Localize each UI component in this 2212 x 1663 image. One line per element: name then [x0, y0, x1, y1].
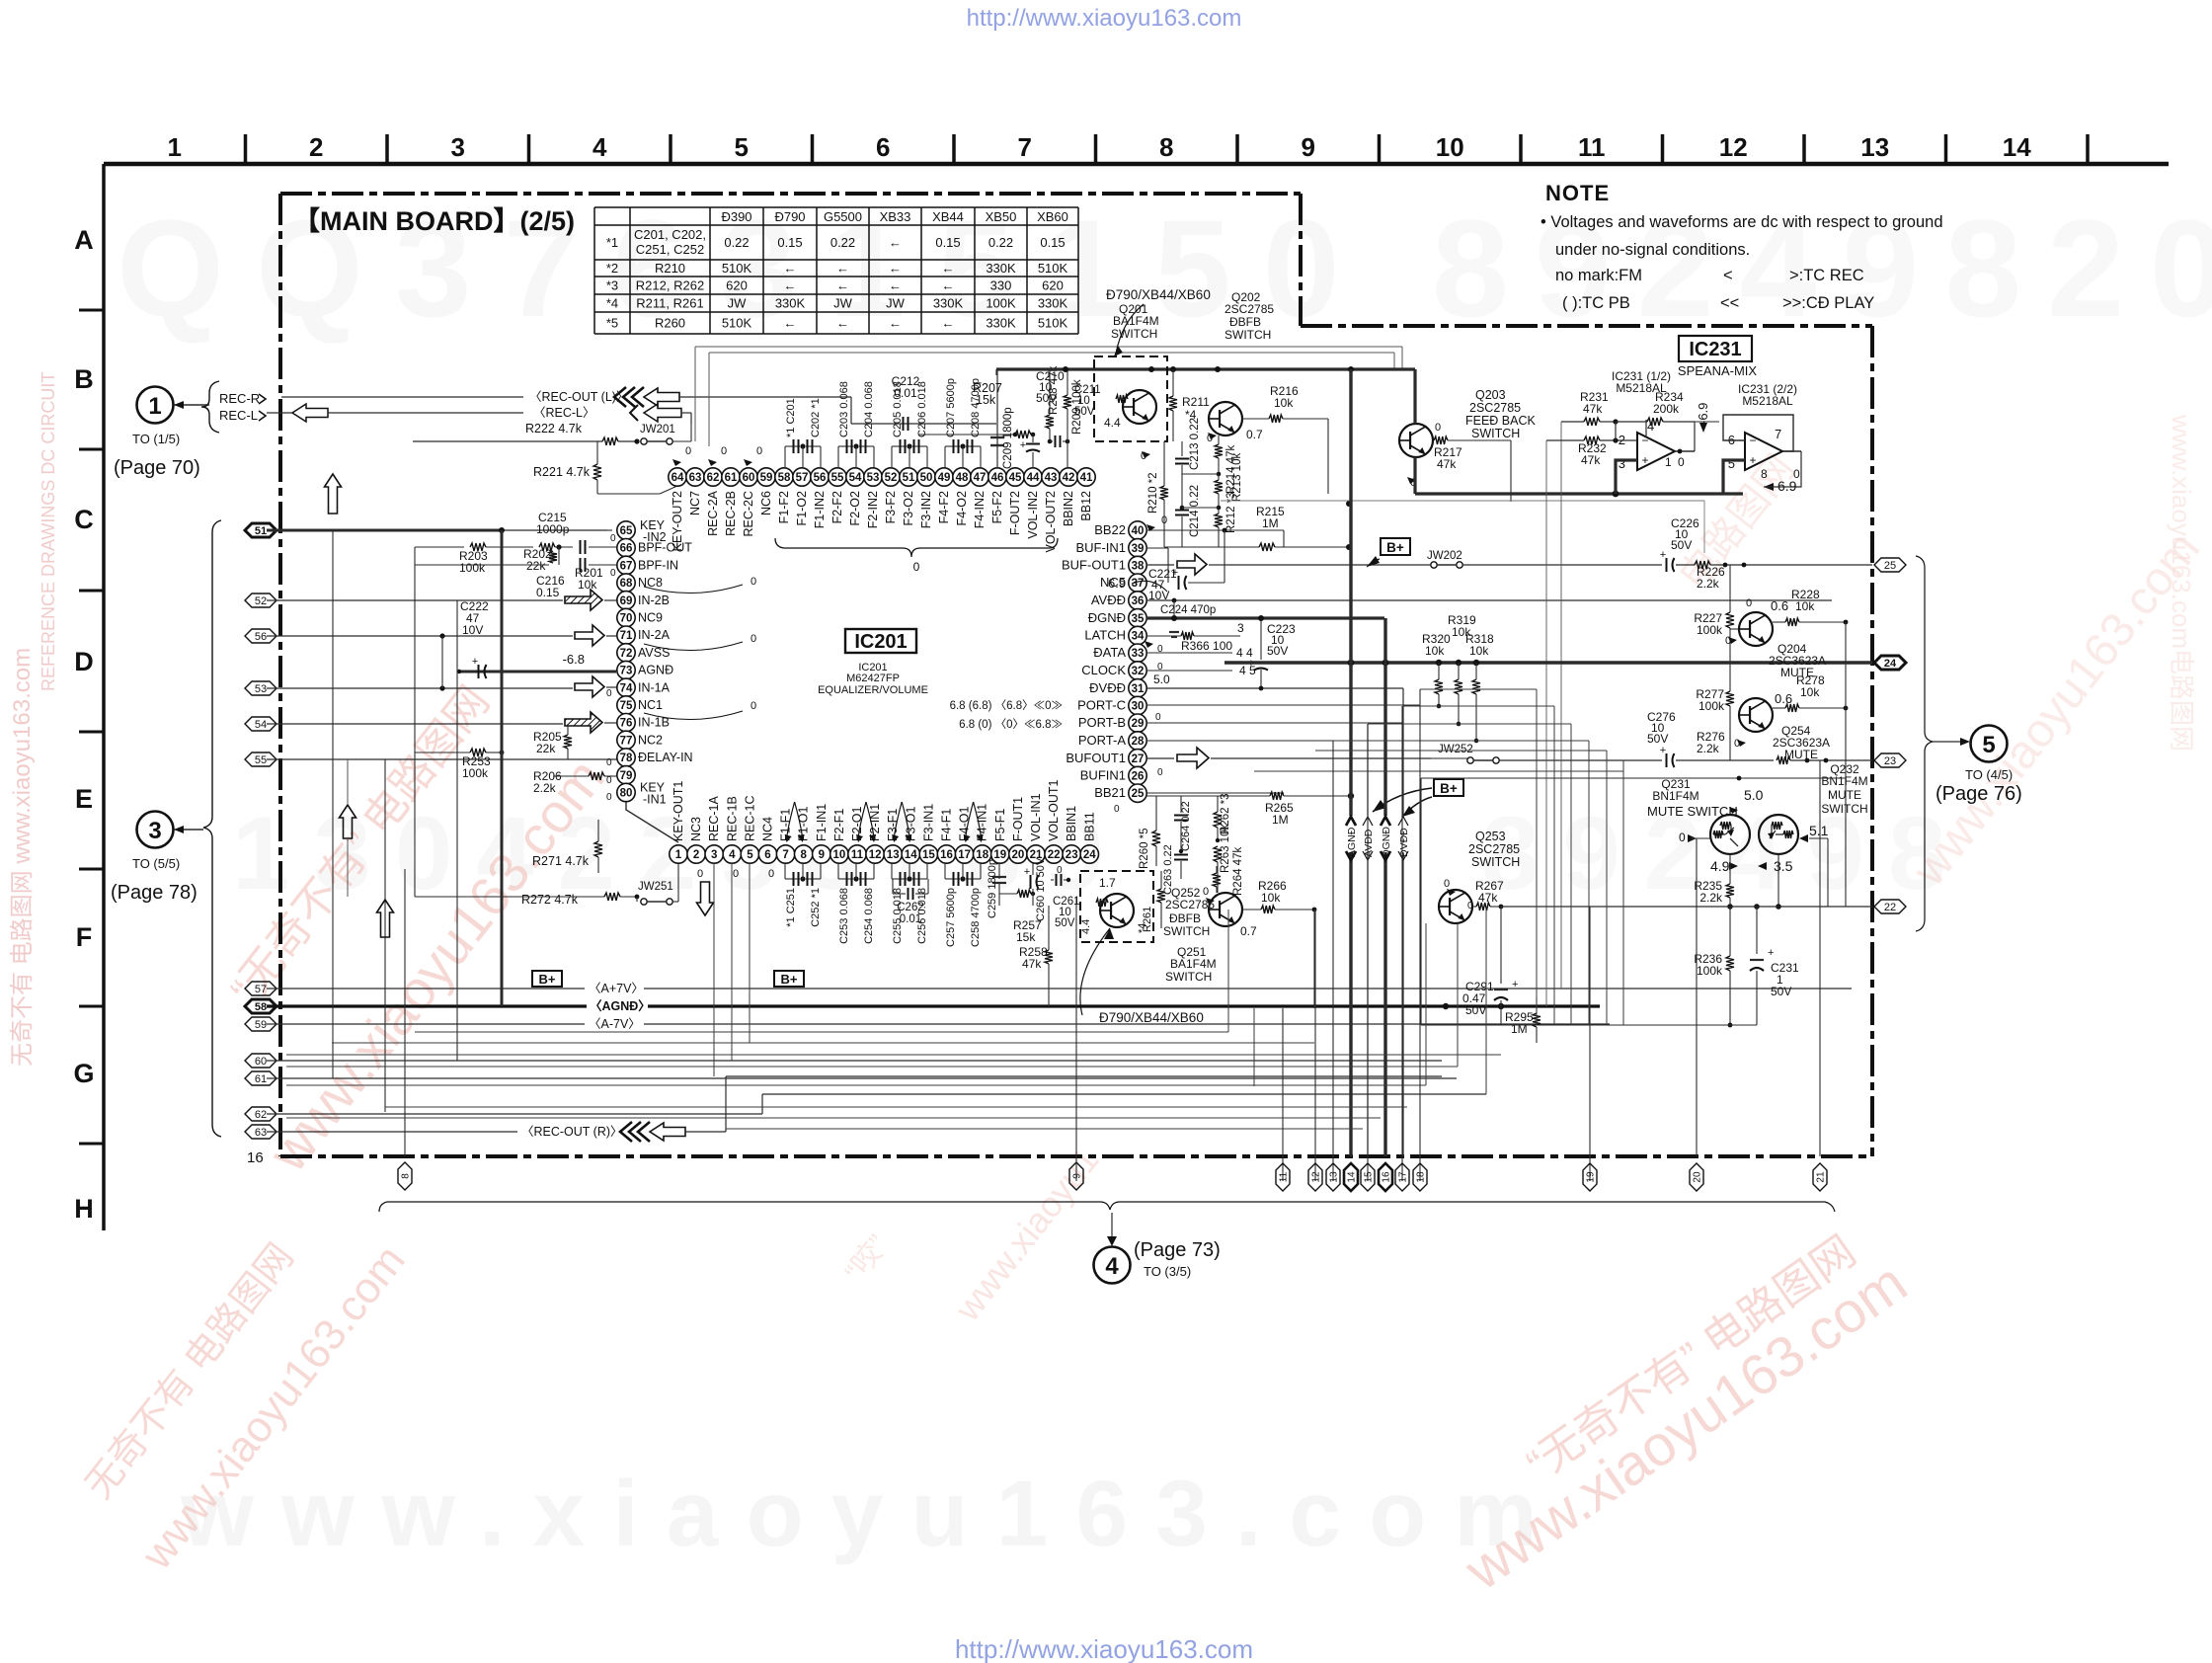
svg-text:100k: 100k — [1697, 623, 1723, 637]
svg-text:0: 0 — [750, 700, 756, 712]
svg-text:0.6: 0.6 — [1775, 691, 1792, 706]
svg-text:64: 64 — [671, 472, 684, 484]
svg-text:F4-F1: F4-F1 — [940, 809, 954, 841]
bottom connectors — [398, 1162, 412, 1190]
svg-text:• Voltages and waveforms are d: • Voltages and waveforms are dc with res… — [1540, 213, 1943, 231]
table variants — [594, 206, 1078, 208]
svg-text:R212 *3: R212 *3 — [1225, 492, 1237, 533]
vertical AVDD — [1367, 724, 1369, 816]
pin 35 &#208;GN&#208; — [1129, 609, 1146, 627]
svg-text:14: 14 — [1347, 1171, 1358, 1183]
svg-text:+: + — [1768, 947, 1774, 959]
svg-text:REC-2B: REC-2B — [724, 491, 738, 536]
pin 49 F4-F2 — [935, 468, 953, 486]
svg-text:AVÐÐ: AVÐÐ — [1363, 829, 1375, 857]
svg-text:35: 35 — [1132, 613, 1145, 625]
svg-text:53: 53 — [255, 683, 267, 695]
svg-text:*1 C251: *1 C251 — [785, 888, 797, 927]
svg-text:61: 61 — [255, 1073, 267, 1085]
svg-text:34: 34 — [1132, 631, 1145, 643]
svg-text:VOL-OUT1: VOL-OUT1 — [1047, 779, 1061, 841]
svg-text:3: 3 — [711, 849, 717, 861]
svg-text:←: ← — [784, 278, 797, 293]
bus horizontals lower — [415, 1031, 1228, 1033]
svg-text:BUF-IN1: BUF-IN1 — [1075, 540, 1126, 555]
pin 52 F3-F2 — [882, 468, 900, 486]
svg-text:〈A-7V〉: 〈A-7V〉 — [589, 1017, 641, 1031]
svg-text:BUFOUT1: BUFOUT1 — [1066, 751, 1126, 765]
svg-text:B+: B+ — [539, 972, 556, 987]
svg-text:VOL-IN2: VOL-IN2 — [1026, 491, 1040, 539]
svg-text:13: 13 — [887, 849, 900, 861]
svg-text:0: 0 — [685, 445, 691, 457]
svg-text:57: 57 — [255, 984, 267, 995]
svg-text:37: 37 — [1132, 578, 1145, 590]
svg-text:0.15: 0.15 — [536, 586, 560, 599]
svg-text:48: 48 — [956, 472, 969, 484]
svg-text:0: 0 — [606, 775, 612, 786]
pin 78 &#208;ELAY-IN — [617, 749, 635, 766]
pin 70 NC9 — [617, 608, 635, 626]
net arrow DVDD — [1398, 817, 1408, 826]
svg-text:C206 0.018: C206 0.018 — [916, 381, 928, 437]
connector 52 — [245, 594, 276, 607]
svg-text:IN-2A: IN-2A — [638, 628, 671, 642]
svg-text:XB44: XB44 — [932, 209, 964, 224]
svg-text:F4-F2: F4-F2 — [937, 491, 951, 523]
svg-text:REC-L: REC-L — [219, 408, 258, 423]
svg-text:0.6: 0.6 — [1771, 598, 1788, 613]
svg-text:29: 29 — [1132, 718, 1145, 730]
svg-text:15: 15 — [922, 849, 935, 861]
wire 61 — [267, 1077, 1457, 1079]
svg-text:9: 9 — [819, 849, 825, 861]
IC201 label box — [845, 629, 916, 653]
svg-text:73: 73 — [620, 666, 633, 677]
pin 7 F1-F1 — [776, 845, 794, 863]
svg-text:67: 67 — [620, 560, 633, 572]
svg-text:>>:CÐ PLAY: >>:CÐ PLAY — [1782, 294, 1874, 312]
pin 5 REC-1C — [741, 845, 758, 863]
wire key-in1 diagonal — [626, 802, 678, 842]
svg-text:XB60: XB60 — [1037, 209, 1068, 224]
svg-text:0: 0 — [1679, 831, 1686, 844]
pin 48 F4-O2 — [953, 468, 971, 486]
svg-text:R211, R261: R211, R261 — [636, 296, 703, 311]
svg-text:←: ← — [836, 261, 849, 276]
svg-text:33: 33 — [1132, 648, 1145, 660]
svg-text:58: 58 — [255, 1001, 267, 1013]
svg-text:〈AGNÐ〉: 〈AGNÐ〉 — [590, 998, 651, 1013]
pin 77 NC2 — [617, 731, 635, 749]
svg-text:BB11: BB11 — [1082, 812, 1096, 841]
svg-text:R209 100k: R209 100k — [1071, 379, 1083, 435]
svg-text:3: 3 — [1619, 456, 1625, 471]
svg-text:10k: 10k — [1274, 396, 1294, 410]
svg-text:0: 0 — [1678, 455, 1685, 469]
svg-text:20: 20 — [1693, 1171, 1703, 1183]
svg-text:40: 40 — [1132, 525, 1145, 537]
svg-text:75: 75 — [620, 700, 633, 712]
wire port-a pin28 — [1146, 740, 1385, 742]
svg-text:R366 100: R366 100 — [1181, 639, 1232, 653]
svg-text:NC6: NC6 — [759, 491, 773, 515]
svg-text:9: 9 — [1072, 1173, 1083, 1179]
capacitor C205 — [891, 446, 893, 468]
svg-text:←: ← — [942, 316, 955, 331]
svg-text:JW: JW — [728, 296, 748, 311]
wire in-1a — [267, 687, 573, 689]
svg-text:0: 0 — [1435, 422, 1441, 434]
svg-text:4.4: 4.4 — [1104, 416, 1121, 430]
svg-text:F2-O2: F2-O2 — [848, 491, 862, 525]
svg-text:F4-IN2: F4-IN2 — [973, 491, 987, 528]
wire port-c pin30 — [1146, 704, 1420, 706]
svg-text:11: 11 — [851, 849, 864, 861]
svg-text:R261: R261 — [1142, 907, 1153, 932]
pin 39 BUF-IN1 — [1129, 539, 1146, 557]
svg-text:8: 8 — [1159, 132, 1173, 162]
svg-text:ÐATA: ÐATA — [1093, 645, 1126, 660]
svg-text:20: 20 — [1012, 849, 1025, 861]
svg-text:55: 55 — [255, 754, 267, 766]
svg-text:6.9: 6.9 — [1777, 478, 1797, 494]
svg-text:VOL-OUT2: VOL-OUT2 — [1044, 491, 1058, 553]
svg-text:B+: B+ — [781, 972, 798, 987]
svg-text:41: 41 — [1080, 472, 1093, 484]
bottom brace — [379, 1202, 387, 1212]
svg-text:EQUALIZER/VOLUME: EQUALIZER/VOLUME — [818, 684, 928, 696]
svg-text:18: 18 — [1416, 1171, 1427, 1183]
svg-text:2SC2785: 2SC2785 — [1469, 401, 1521, 415]
svg-text:56: 56 — [255, 631, 267, 643]
pin 42 BBIN2 — [1060, 468, 1077, 486]
svg-text:NC2: NC2 — [638, 733, 663, 747]
pin 67 BPF-IN — [617, 556, 635, 574]
svg-text:39: 39 — [1132, 543, 1145, 555]
svg-text:2: 2 — [693, 849, 699, 861]
svg-text:17: 17 — [1398, 1171, 1409, 1183]
svg-text:F5-F1: F5-F1 — [993, 809, 1007, 841]
svg-text:XB50: XB50 — [986, 209, 1017, 224]
connector 61 — [245, 1071, 276, 1085]
svg-text:1: 1 — [1665, 455, 1672, 469]
pin 71 IN-2A — [617, 626, 635, 644]
svg-text:+: + — [1749, 453, 1756, 467]
pin 60 REC-2C — [740, 468, 757, 486]
svg-text:2SC2785: 2SC2785 — [1224, 302, 1274, 316]
svg-text:http://www.xiaoyu163.com: http://www.xiaoyu163.com — [967, 5, 1242, 32]
svg-text:32: 32 — [1132, 666, 1145, 677]
svg-text:80: 80 — [620, 788, 633, 800]
capacitor C212 — [903, 417, 905, 431]
node 5 TO (4/5) — [1916, 556, 1933, 931]
pin 26 BUFIN1 — [1129, 766, 1146, 784]
svg-text:BPF-OUT: BPF-OUT — [638, 541, 692, 555]
bold input pin3 — [1616, 460, 1637, 494]
capacitor C209 — [996, 370, 998, 468]
pin 53 F2-IN2 — [864, 468, 882, 486]
svg-text:XB33: XB33 — [880, 209, 911, 224]
pin 14 F3-O1 — [902, 845, 919, 863]
svg-text:AVSS: AVSS — [638, 646, 670, 660]
connector 57 — [245, 982, 276, 995]
svg-text:620: 620 — [726, 278, 748, 293]
svg-text:←: ← — [889, 316, 902, 331]
svg-text:1M: 1M — [1262, 516, 1279, 530]
svg-text:←: ← — [889, 235, 902, 250]
svg-text:510K: 510K — [722, 261, 752, 276]
wire agnd bus — [267, 1004, 587, 1007]
JW202 jumper — [1146, 564, 1174, 566]
svg-text:SWITCH: SWITCH — [1471, 427, 1520, 440]
svg-text:www.xiaoyu163.com电路图网: www.xiaoyu163.com电路图网 — [2167, 414, 2196, 752]
svg-text:Ð790/XB44/XB60: Ð790/XB44/XB60 — [1099, 1010, 1204, 1025]
wire 62 — [267, 1113, 762, 1115]
IC231 label box — [1679, 336, 1752, 361]
pin 76 IN-1B — [617, 714, 635, 732]
svg-text:REC-1A: REC-1A — [707, 795, 721, 841]
svg-text:C203 0.068: C203 0.068 — [838, 381, 850, 437]
svg-text:10: 10 — [833, 849, 846, 861]
svg-text:22: 22 — [1884, 902, 1896, 913]
pin 30 PORT-C — [1129, 696, 1146, 714]
svg-text:ÐBFB: ÐBFB — [1229, 315, 1261, 329]
svg-text:NC7: NC7 — [688, 491, 702, 515]
wire in-1b — [267, 723, 563, 725]
svg-text:0.7: 0.7 — [1240, 924, 1257, 938]
pin 58 F1-F2 — [775, 468, 793, 486]
pin 45 F-OUT2 — [1006, 468, 1024, 486]
svg-text:BN1F4M: BN1F4M — [1821, 774, 1867, 788]
svg-text:62: 62 — [255, 1109, 267, 1121]
svg-text:1000p: 1000p — [536, 522, 570, 536]
svg-text:10k: 10k — [1469, 644, 1489, 658]
svg-text:R264 47k: R264 47k — [1232, 847, 1244, 896]
svg-text:SWITCH: SWITCH — [1111, 327, 1157, 341]
wire bb22 row — [1146, 529, 1284, 531]
svg-text:2.2k: 2.2k — [1697, 577, 1720, 591]
svg-text:C257 5600p: C257 5600p — [945, 888, 957, 947]
pin 4 REC-1B — [723, 845, 741, 863]
svg-text:45: 45 — [1009, 472, 1022, 484]
svg-text:Ð790/XB44/XB60: Ð790/XB44/XB60 — [1106, 287, 1211, 302]
svg-text:0: 0 — [606, 757, 612, 768]
svg-text:65: 65 — [620, 525, 633, 537]
svg-text:REC-2A: REC-2A — [706, 490, 720, 536]
svg-text:5: 5 — [735, 132, 749, 162]
pin 12 F2-IN1 — [866, 845, 884, 863]
pin 37 NC5 — [1129, 574, 1146, 592]
svg-text:C252 *1: C252 *1 — [810, 888, 822, 927]
svg-text:www.xiaoyu163.com: www.xiaoyu163.com — [180, 1462, 1565, 1566]
svg-text:5: 5 — [1982, 732, 1995, 758]
capacitor C259 — [998, 863, 1000, 879]
svg-text:43: 43 — [1045, 472, 1058, 484]
pin 61 REC-2B — [722, 468, 740, 486]
svg-text:72: 72 — [620, 648, 633, 660]
brace top pin group — [775, 538, 1058, 557]
svg-text:VOL-IN1: VOL-IN1 — [1029, 793, 1043, 841]
svg-text:C207 5600p: C207 5600p — [945, 378, 957, 437]
svg-text:49: 49 — [938, 472, 951, 484]
pin 31 &#208;V&#208;&#208; — [1129, 679, 1146, 697]
resistor R278 — [1773, 707, 1785, 709]
svg-text:BBIN1: BBIN1 — [1065, 806, 1078, 841]
svg-text:BA1F4M: BA1F4M — [1170, 957, 1217, 971]
svg-text:55: 55 — [831, 472, 844, 484]
svg-text:52: 52 — [255, 595, 267, 607]
svg-text:F1-O2: F1-O2 — [795, 491, 809, 525]
box around Q253 — [1421, 777, 1846, 779]
svg-text:BBIN2: BBIN2 — [1062, 491, 1075, 526]
svg-text:71: 71 — [620, 630, 633, 642]
svg-text:47k: 47k — [1583, 402, 1603, 416]
svg-text:D: D — [74, 647, 94, 676]
svg-text:+: + — [1024, 866, 1030, 878]
wire a-7v — [267, 1023, 585, 1025]
wire bufout1 pin27 — [1146, 757, 1174, 759]
pin 16 F4-F1 — [937, 845, 955, 863]
wire REC-L — [267, 412, 292, 414]
connector 54 — [245, 717, 276, 731]
svg-text:0.15: 0.15 — [777, 235, 802, 250]
svg-text:Ð390: Ð390 — [721, 209, 751, 224]
svg-text:510K: 510K — [722, 316, 752, 331]
pin 55 F2-F2 — [829, 468, 846, 486]
vertical drops below pins — [713, 863, 715, 1076]
svg-text:14: 14 — [2003, 132, 2031, 162]
frame ruler top — [104, 162, 2169, 167]
svg-text:47k: 47k — [1437, 457, 1457, 471]
pin 75 NC1 — [617, 696, 635, 714]
svg-text:4: 4 — [592, 132, 607, 162]
svg-text:4.4: 4.4 — [1080, 919, 1092, 934]
svg-text:←: ← — [784, 261, 797, 276]
pin 79 — [617, 766, 635, 784]
svg-text:57: 57 — [796, 472, 809, 484]
pin 15 F3-IN1 — [919, 845, 937, 863]
svg-text:BUFIN1: BUFIN1 — [1080, 768, 1126, 783]
svg-text:C209 1800p: C209 1800p — [1002, 407, 1014, 469]
svg-text:REC-1C: REC-1C — [743, 795, 756, 841]
node 4 TO (3/5) — [1094, 1247, 1131, 1284]
svg-text:BUF-OUT1: BUF-OUT1 — [1062, 558, 1126, 573]
down arrow 1 — [697, 882, 714, 915]
svg-text:REFERENCE DRAWINGS DC CIRCUIT: REFERENCE DRAWINGS DC CIRCUIT — [39, 372, 58, 691]
verticals to bottom connectors — [1282, 1008, 1284, 1181]
pin 72 AVSS — [617, 644, 635, 662]
svg-text:0: 0 — [733, 868, 739, 880]
svg-text:+: + — [1172, 567, 1178, 579]
connector 21 — [1813, 1163, 1827, 1191]
connector 63 — [245, 1125, 276, 1139]
capacitor C207 — [944, 446, 946, 468]
svg-text:1: 1 — [168, 132, 182, 162]
svg-text:36: 36 — [1132, 595, 1145, 607]
svg-text:R212, R262: R212, R262 — [636, 278, 704, 293]
svg-text:50V: 50V — [1465, 1003, 1486, 1017]
svg-text:10k: 10k — [1795, 599, 1815, 613]
svg-text:0.15: 0.15 — [935, 235, 960, 250]
svg-text:330K: 330K — [775, 296, 806, 311]
svg-text:SWITCH: SWITCH — [1224, 328, 1271, 342]
svg-text:【MAIN BOARD】(2/5): 【MAIN BOARD】(2/5) — [293, 206, 575, 236]
svg-text:10k: 10k — [578, 578, 597, 592]
wire gray parallel — [1221, 500, 1704, 502]
svg-text:CLOCK: CLOCK — [1081, 663, 1126, 677]
svg-text:330K: 330K — [1038, 296, 1068, 311]
svg-text:510K: 510K — [1038, 316, 1068, 331]
svg-text:100k: 100k — [1697, 964, 1723, 978]
svg-text:5.0: 5.0 — [1153, 673, 1170, 686]
pin 46 F5-F2 — [988, 468, 1006, 486]
svg-text:C204 0.068: C204 0.068 — [863, 381, 875, 437]
pin 36 AV&#208;&#208; — [1129, 592, 1146, 609]
svg-text:PORT-A: PORT-A — [1078, 733, 1126, 748]
svg-text:ÐVÐÐ: ÐVÐÐ — [1089, 680, 1126, 695]
connector 20 — [1690, 1163, 1703, 1191]
svg-text:50V: 50V — [1267, 644, 1288, 658]
svg-text:2: 2 — [309, 132, 323, 162]
svg-text:PORT-C: PORT-C — [1077, 698, 1126, 713]
connector 58 — [245, 999, 276, 1013]
svg-text:60: 60 — [743, 472, 755, 484]
svg-text:<<: << — [1720, 294, 1739, 312]
svg-text:0: 0 — [1444, 878, 1450, 890]
svg-text:C259 1800p: C259 1800p — [987, 859, 998, 918]
svg-text:330K: 330K — [986, 261, 1016, 276]
svg-text:+: + — [1660, 549, 1666, 561]
connector 25 — [1874, 558, 1906, 572]
svg-text:69: 69 — [620, 595, 633, 607]
connector 55 — [245, 752, 276, 766]
svg-text:56: 56 — [814, 472, 827, 484]
svg-text:C231: C231 — [1771, 961, 1799, 975]
output wire U2 — [1764, 451, 1801, 487]
svg-text:76: 76 — [620, 718, 633, 730]
svg-text:9: 9 — [1302, 132, 1315, 162]
svg-text:IC201: IC201 — [854, 631, 907, 653]
svg-text:13: 13 — [1860, 132, 1889, 162]
svg-text:R263 10k: R263 10k — [1220, 825, 1231, 873]
svg-text:←: ← — [889, 261, 902, 276]
svg-text:*1 C201: *1 C201 — [785, 398, 797, 437]
svg-text:10k: 10k — [1261, 891, 1281, 905]
svg-text:27: 27 — [1132, 753, 1145, 765]
svg-text:50V: 50V — [1671, 538, 1692, 552]
svg-text:Ð790: Ð790 — [774, 209, 805, 224]
pin 21 VOL-IN1 — [1027, 845, 1045, 863]
svg-text:2.2k: 2.2k — [1697, 742, 1720, 755]
svg-text:620: 620 — [1042, 278, 1064, 293]
svg-text:0: 0 — [606, 688, 612, 699]
pin 3 REC-1A — [705, 845, 723, 863]
svg-text:C224 470p: C224 470p — [1160, 604, 1216, 616]
svg-text:C213 0.22: C213 0.22 — [1189, 418, 1201, 470]
svg-text:77: 77 — [620, 735, 633, 747]
svg-text:59: 59 — [255, 1019, 267, 1031]
svg-text:under no-signal conditions.: under no-signal conditions. — [1555, 241, 1750, 259]
svg-text:F5-F2: F5-F2 — [990, 491, 1004, 523]
svg-text:无奇不有 电路图网 www.xiaoyu163.com: 无奇不有 电路图网 www.xiaoyu163.com — [9, 648, 36, 1067]
svg-text:3.5: 3.5 — [1774, 858, 1793, 874]
svg-text:10k: 10k — [1800, 685, 1820, 699]
svg-text:http://www.xiaoyu163.com: http://www.xiaoyu163.com — [955, 1634, 1253, 1663]
svg-text:6.8 (6.8) 〈6.8〉≪0≫: 6.8 (6.8) 〈6.8〉≪0≫ — [950, 699, 1063, 712]
svg-text:C262: C262 — [897, 902, 924, 913]
svg-text:0: 0 — [1114, 804, 1120, 815]
